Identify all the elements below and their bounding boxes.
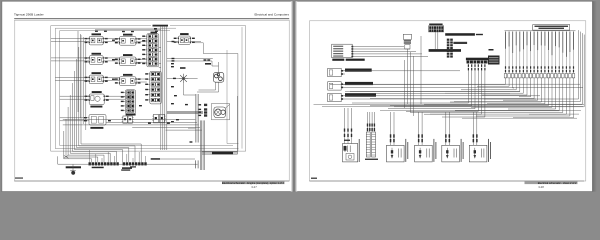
left footer link text: [222, 182, 285, 185]
ECM pin inline ticks: [505, 32, 574, 74]
diagnostic connector: [403, 34, 411, 104]
relay K3: [85, 72, 108, 84]
svg-text:Tigercat 290B Loader: Tigercat 290B Loader: [14, 12, 44, 16]
tag on bottom wire: [151, 158, 195, 160]
relay K8: [174, 33, 195, 44]
harness boundary outer: [51, 26, 246, 151]
connector J1: [142, 34, 159, 67]
cab harness exit band: [202, 96, 238, 154]
right side staircase wires: [394, 30, 584, 107]
thick wire bus to motor: [167, 111, 203, 113]
relay K1: [85, 33, 108, 45]
relay K4 with diode: [85, 91, 109, 104]
right footer rule: [310, 180, 585, 182]
left footer rule: [14, 180, 289, 182]
drawing number left: [15, 178, 23, 179]
relay K5: [115, 34, 141, 45]
bottom long wire: [58, 156, 198, 168]
alternator block: [415, 112, 437, 162]
ECM pin labels vertical text: [505, 32, 574, 57]
cab harness wire bundle: [188, 94, 205, 170]
ECM wire staircase: [330, 78, 574, 118]
electrical box 1 label bar: [445, 33, 483, 36]
mid horizontal bus: [314, 105, 585, 119]
harness boundary right leg 2: [241, 27, 243, 149]
relay K7: [115, 74, 141, 86]
fuel pump block: [442, 112, 464, 162]
ENGINE HARNESS top label: [151, 24, 170, 28]
harness boundary mid: [55, 28, 238, 148]
power distribution block: [429, 26, 444, 32]
TO CAB HARNESS label: [212, 152, 233, 155]
bus drop lines: [405, 52, 414, 116]
inline fuse cells: [447, 39, 453, 58]
terminal strip TB1: [89, 150, 147, 165]
right footer link text: [525, 182, 578, 185]
left header rule: [14, 17, 289, 19]
ECM header line: [505, 30, 576, 32]
oil level switch drops: [352, 71, 485, 118]
harness boundary step: [192, 43, 238, 151]
harness boundary inner: [60, 31, 233, 146]
glow plug block: [469, 112, 491, 162]
starter block: [387, 112, 409, 162]
harness junction label block: [488, 49, 500, 65]
wires to right components: [167, 42, 219, 95]
top feed wire: [95, 28, 161, 30]
coolant temperature sensor: [328, 68, 372, 76]
wire bus vertical: [161, 26, 167, 150]
wire twist symbol: [64, 155, 69, 158]
connector J4: [122, 116, 134, 123]
spare analog sensor: [328, 93, 376, 101]
wire bundle bottom-left bends: [64, 31, 141, 162]
connector J3 label: [126, 114, 136, 116]
harness boundary right leg 1: [227, 50, 239, 144]
star junction symbol: [179, 67, 189, 83]
ECM connector label box: [533, 25, 570, 31]
left diagram frame: [15, 20, 289, 181]
sensor bus wires: [343, 47, 583, 100]
ECM pin row: [504, 74, 575, 78]
terminal strip labels: [92, 166, 136, 170]
svg-text:3-28: 3-28: [538, 185, 544, 189]
connector J5: [152, 114, 165, 123]
ECM power box: [332, 44, 365, 61]
relay K2: [85, 53, 108, 65]
connector J2: [145, 71, 161, 104]
power distribution label: [429, 24, 442, 26]
engine oil temperature sensor: [328, 82, 373, 90]
oil level switch label: [466, 58, 495, 61]
drawing number right: [311, 178, 317, 179]
engine harness label text: [453, 42, 467, 44]
fuel sender wires: [60, 117, 89, 121]
relay K6: [115, 54, 141, 66]
motor M1: [198, 104, 229, 120]
connector J1 top label: [151, 32, 158, 34]
vertical link power to bars: [421, 32, 438, 104]
engine harness connector label bar: [429, 49, 461, 52]
fuel sender component: [89, 115, 106, 129]
left page sheet: [2, 1, 292, 191]
relay K4 label below: [90, 106, 102, 108]
oil level switch connector row: [467, 61, 494, 71]
battery ground cluster: [66, 164, 81, 174]
svg-text:Electrical and Computers: Electrical and Computers: [254, 12, 289, 16]
relay row wires: [51, 39, 161, 100]
wire tags left page: [95, 31, 210, 124]
battery connection block: [343, 108, 360, 162]
connector J3: [121, 90, 136, 114]
upper-left vertical wires: [77, 31, 79, 112]
center spine shadow: [291, 1, 297, 191]
midfield horizontal wires: [63, 120, 202, 130]
right edge shadow: [592, 1, 597, 191]
solenoid L1: [205, 62, 224, 82]
right page sheet: [296, 1, 593, 191]
right diagram frame: [310, 21, 586, 181]
bulkhead connector pair: [365, 112, 378, 160]
svg-text:3-27: 3-27: [251, 185, 257, 189]
